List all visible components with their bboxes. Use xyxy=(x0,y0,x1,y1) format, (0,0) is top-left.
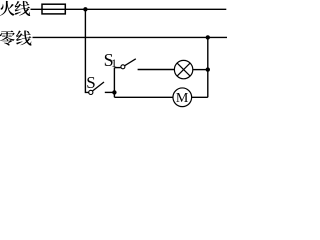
svg-text:1: 1 xyxy=(111,56,117,70)
junction: neutral / right vertical xyxy=(206,35,210,39)
wire: middle vertical xyxy=(113,68,115,98)
junction: S branch / middle vertical xyxy=(112,90,116,94)
junction: lamp branch / right vertical xyxy=(206,67,210,71)
wire: S fixed contact to middle vertical xyxy=(105,91,115,93)
motor M xyxy=(173,88,192,107)
switch S1 moving-contact circle xyxy=(121,65,125,69)
wire: neutral horizontal xyxy=(33,36,228,38)
switch S1 lever (open) xyxy=(125,59,136,66)
wire: middle vertical to motor xyxy=(114,96,173,98)
wire: stub to switch S1 xyxy=(114,67,120,69)
wire: live wire horizontal xyxy=(31,8,227,10)
lamp (circle with X) xyxy=(174,60,192,78)
svg-text:M: M xyxy=(176,91,189,106)
label 零线 (neutral wire) xyxy=(0,30,32,45)
wire: motor to right vertical xyxy=(192,96,208,98)
wire: right vertical (neutral down to motor) xyxy=(207,37,209,97)
wire: S1 fixed contact to lamp xyxy=(138,69,175,71)
label 火线 (live wire) xyxy=(0,1,30,16)
switch S lever (open) xyxy=(93,82,105,91)
wire: lamp to right vertical xyxy=(193,69,208,71)
fuse xyxy=(42,4,65,14)
wire: left vertical from live wire down to switch S xyxy=(85,9,88,92)
junction: live wire / switch branch xyxy=(83,7,87,11)
switch S moving-contact circle xyxy=(89,90,93,94)
